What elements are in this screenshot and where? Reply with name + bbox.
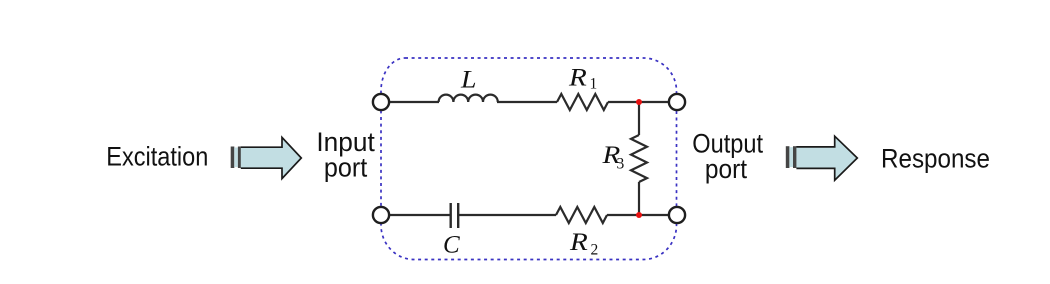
svg-text:port: port bbox=[324, 153, 368, 183]
svg-text:C: C bbox=[443, 232, 460, 259]
svg-text:R: R bbox=[568, 65, 587, 92]
wire R3 bottom lead bbox=[638, 182, 640, 215]
terminal output top bbox=[669, 94, 685, 110]
inductor L bbox=[439, 95, 498, 102]
wire capacitor to R2 bbox=[458, 214, 556, 216]
resistor R1 bbox=[557, 94, 608, 110]
excitation arrow bbox=[231, 137, 302, 178]
resistor R3 bbox=[631, 135, 647, 182]
capacitor C bbox=[451, 203, 459, 228]
terminal input bottom bbox=[373, 207, 389, 223]
svg-text:1: 1 bbox=[590, 76, 598, 93]
wire R1 to output terminal bbox=[608, 101, 669, 103]
svg-text:3: 3 bbox=[617, 156, 625, 173]
node A (top junction) bbox=[636, 99, 642, 105]
wire top-left (input terminal to inductor) bbox=[389, 101, 439, 103]
response arrow bbox=[786, 136, 858, 180]
wire bottom-left (input terminal to capacitor) bbox=[389, 214, 450, 216]
node B (bottom junction) bbox=[636, 212, 642, 218]
wire inductor to R1 bbox=[497, 101, 557, 103]
two-port network dashed boundary box bbox=[381, 58, 677, 260]
wire R3 top lead bbox=[638, 102, 640, 135]
svg-text:port: port bbox=[705, 154, 748, 184]
svg-text:R: R bbox=[569, 229, 588, 256]
terminal input top bbox=[373, 94, 389, 110]
svg-text:2: 2 bbox=[591, 242, 599, 259]
svg-text:Excitation: Excitation bbox=[106, 142, 208, 172]
terminal output bottom bbox=[669, 207, 685, 223]
resistor R2 bbox=[556, 207, 607, 223]
svg-text:L: L bbox=[460, 67, 477, 94]
wire R2 to output terminal bbox=[607, 214, 669, 216]
svg-text:Response: Response bbox=[881, 144, 990, 174]
